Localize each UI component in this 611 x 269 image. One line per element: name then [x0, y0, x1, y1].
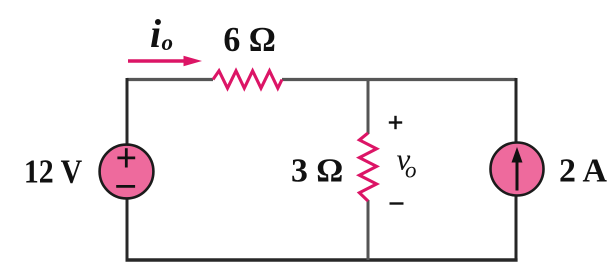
svg-text:o: o: [162, 30, 174, 55]
svg-text:2 A: 2 A: [559, 153, 607, 190]
current direction arrow: [128, 56, 202, 66]
node + (v_o plus): [389, 116, 402, 129]
wire middle vertical upper: [367, 80, 370, 135]
wire left vertical: [126, 78, 129, 260]
voltage source V1 (12 V): [100, 145, 154, 199]
wire top-right segment: [282, 78, 516, 81]
current source I1 (2 A): [491, 143, 544, 196]
resistor 3 ohm (vertical zigzag): [359, 133, 376, 201]
svg-text:i: i: [150, 11, 161, 56]
svg-text:o: o: [405, 158, 417, 183]
svg-text:3 Ω: 3 Ω: [291, 152, 343, 189]
wire right vertical: [515, 78, 518, 260]
svg-text:6 Ω: 6 Ω: [223, 20, 276, 59]
wire top-left segment: [127, 78, 213, 81]
resistor 6 ohm (horizontal zigzag): [213, 71, 282, 88]
wire middle vertical lower: [367, 200, 370, 260]
svg-text:12 V: 12 V: [24, 154, 83, 191]
wire bottom: [126, 258, 518, 261]
node - (v_o minus): [390, 202, 404, 204]
